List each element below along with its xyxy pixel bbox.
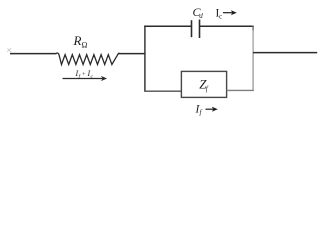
svg-text:d: d [199,12,203,20]
svg-text:R: R [73,33,82,48]
resistor RΩ [56,53,120,64]
wire: resistor to left rail [119,53,146,55]
svg-text:Ω: Ω [82,41,88,50]
wire: right lead [253,52,317,54]
impedance box Zf [181,71,226,97]
label Zf [199,76,209,93]
svg-text:+: + [82,71,86,78]
svg-text:c: c [219,13,222,21]
capacitor Cd [192,20,200,39]
label Ic with arrow [216,8,237,21]
wire: right rail (node B) [252,26,254,92]
wire: left rail (node A) [144,26,146,92]
wire: bottom branch right [227,89,254,91]
wire: top branch left [144,25,191,27]
current arrow If+Ic [63,76,108,81]
wire: bottom branch left [144,90,181,92]
wire: top branch right [200,25,254,27]
label Cd [193,5,204,20]
label If+Ic [75,69,94,80]
label RΩ [73,33,88,50]
wire: left lead [7,48,56,53]
svg-text:f: f [200,109,203,117]
label If with arrow [195,104,218,117]
